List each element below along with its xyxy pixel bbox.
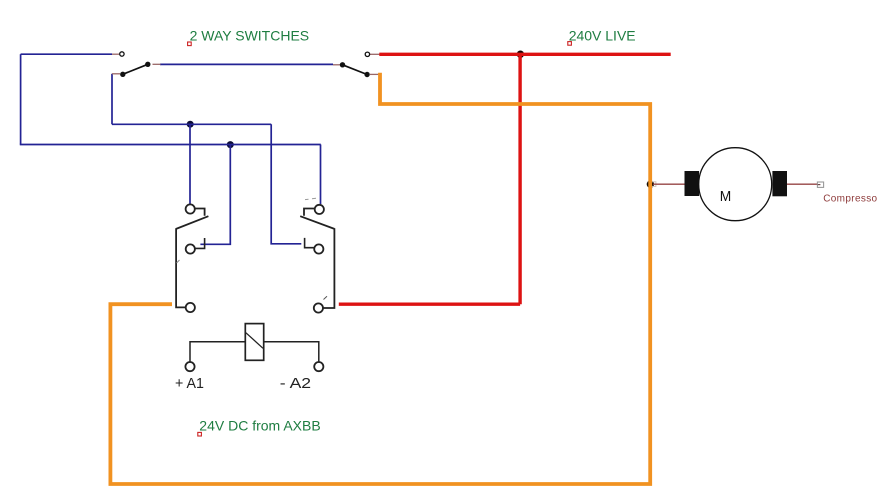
relay K1 coil body [245, 324, 263, 361]
svg-text:Compresso: Compresso [823, 193, 877, 204]
relay K1 left middle contact terminal [186, 244, 195, 253]
junction dot on y=144 wire [227, 141, 234, 148]
pin stub switch S1 output [153, 63, 161, 65]
motor M1 body [699, 148, 772, 221]
switch S1 open terminal [120, 52, 124, 56]
svg-text:- A2: - A2 [280, 376, 311, 392]
switch S1 lever pivot dot [120, 72, 125, 77]
anchor square for 2 WAY SWITCHES label [188, 42, 192, 46]
relay K1 coil right lead [264, 342, 319, 362]
wire red to relay K1 right bottom contact [339, 303, 520, 306]
wire blue left vertical [20, 54, 22, 144]
svg-text:24V DC from AXBB: 24V DC from AXBB [199, 418, 320, 434]
artifact mark above right contact arm [305, 198, 316, 199]
pin stub switch S2 input [333, 64, 340, 66]
wire orange loop [110, 73, 650, 484]
wire red 240V live horizontal [379, 53, 670, 56]
switch S2 lever end dot [364, 72, 369, 77]
relay K1 left top contact terminal [186, 204, 195, 213]
switch S1 lever [123, 64, 148, 74]
wire blue branch to relay K1 left top contact [189, 124, 191, 204]
wire blue to relay K1 right middle contact [271, 124, 301, 244]
wire tick inside terminal square [818, 184, 821, 186]
wire blue switch1 lower vertical [111, 74, 113, 125]
svg-text:2 WAY SWITCHES: 2 WAY SWITCHES [190, 28, 310, 44]
switch S2 lever pivot dot [340, 62, 345, 67]
junction dot on red wire [517, 51, 524, 58]
relay K1 right middle contact tick [305, 238, 314, 248]
wire blue y=144 horizontal [20, 144, 321, 146]
anchor square for 240V LIVE label [568, 42, 572, 46]
relay K1 coil terminal A1 [185, 362, 194, 371]
relay K1 right contact arm [300, 209, 334, 309]
wire blue down to relay K1 right top contact [320, 145, 322, 205]
relay K1 coil left lead [190, 342, 245, 362]
junction dot on y=124 wire [187, 121, 194, 128]
svg-text:M: M [720, 189, 732, 205]
open terminal square Compressor [817, 182, 823, 187]
relay K1 right bottom contact terminal [314, 303, 323, 312]
relay K1 left contact arm [176, 209, 208, 308]
svg-text:+ A1: + A1 [175, 376, 204, 392]
junction dot on orange wire at motor tap [647, 181, 654, 188]
artifact mark near left frame [177, 260, 180, 263]
wire blue branch to relay K1 left middle contact [200, 145, 230, 245]
wire red vertical drop [518, 54, 521, 304]
artifact mark near right bottom contact [324, 296, 328, 299]
relay K1 right top contact terminal [315, 205, 324, 214]
motor M1 right brush terminal [772, 171, 787, 196]
relay K1 left bottom contact terminal [186, 303, 195, 312]
wire thin from motor right terminal [787, 183, 820, 185]
faint anchor square at motor tap [651, 182, 656, 187]
anchor square for 24V DC label [198, 432, 202, 436]
svg-text:240V LIVE: 240V LIVE [569, 27, 636, 43]
pin stub switch S2 top to red [370, 53, 380, 55]
wire blue top-left horizontal [21, 53, 112, 55]
wire blue y=124 horizontal [112, 123, 271, 125]
relay K1 coil diagonal [246, 333, 263, 349]
switch S2 lever [343, 65, 368, 75]
switch S1 lever end dot [145, 62, 150, 67]
switch S2 open terminal [365, 52, 369, 56]
relay K1 right middle contact terminal [314, 244, 323, 253]
wire blue between switches [160, 63, 333, 65]
relay K1 left middle contact tick [195, 238, 204, 248]
motor M1 left brush terminal [685, 171, 700, 196]
pin stub switch S2 bottom to orange [370, 73, 379, 75]
pin stub switch S1 top [112, 53, 119, 55]
wire thin to motor left terminal [653, 183, 685, 185]
relay K1 coil terminal A2 [314, 362, 323, 371]
pin stub switch S1 common [112, 73, 120, 75]
